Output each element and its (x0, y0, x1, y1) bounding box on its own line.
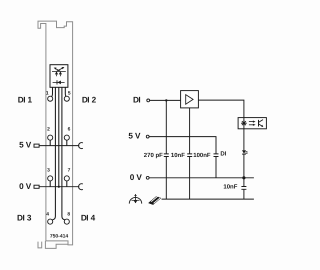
svg-text:5: 5 (68, 90, 71, 96)
svg-text:5 V: 5 V (128, 132, 141, 141)
svg-text:DI 2: DI 2 (82, 96, 97, 105)
svg-text:10nF: 10nF (171, 152, 185, 159)
svg-text:0 V: 0 V (19, 182, 32, 191)
svg-text:DI 4: DI 4 (81, 213, 96, 222)
svg-text:1: 1 (46, 90, 49, 96)
svg-text:7: 7 (68, 167, 71, 173)
svg-text:100nF: 100nF (193, 152, 211, 159)
svg-text:2: 2 (47, 127, 50, 133)
svg-text:750-414: 750-414 (50, 234, 69, 240)
svg-text:270 pF: 270 pF (144, 152, 163, 159)
svg-text:10nF: 10nF (223, 183, 237, 190)
svg-text:4: 4 (46, 211, 49, 217)
svg-text:DI 3: DI 3 (17, 213, 32, 222)
svg-text:5 V: 5 V (19, 141, 32, 150)
svg-text:8: 8 (67, 211, 70, 217)
svg-text:DI 1: DI 1 (18, 96, 33, 105)
svg-text:DI: DI (220, 150, 226, 157)
svg-text:0 V: 0 V (130, 173, 143, 182)
svg-text:DI: DI (133, 96, 140, 105)
svg-text:6: 6 (68, 127, 71, 133)
svg-text:3: 3 (47, 167, 50, 173)
